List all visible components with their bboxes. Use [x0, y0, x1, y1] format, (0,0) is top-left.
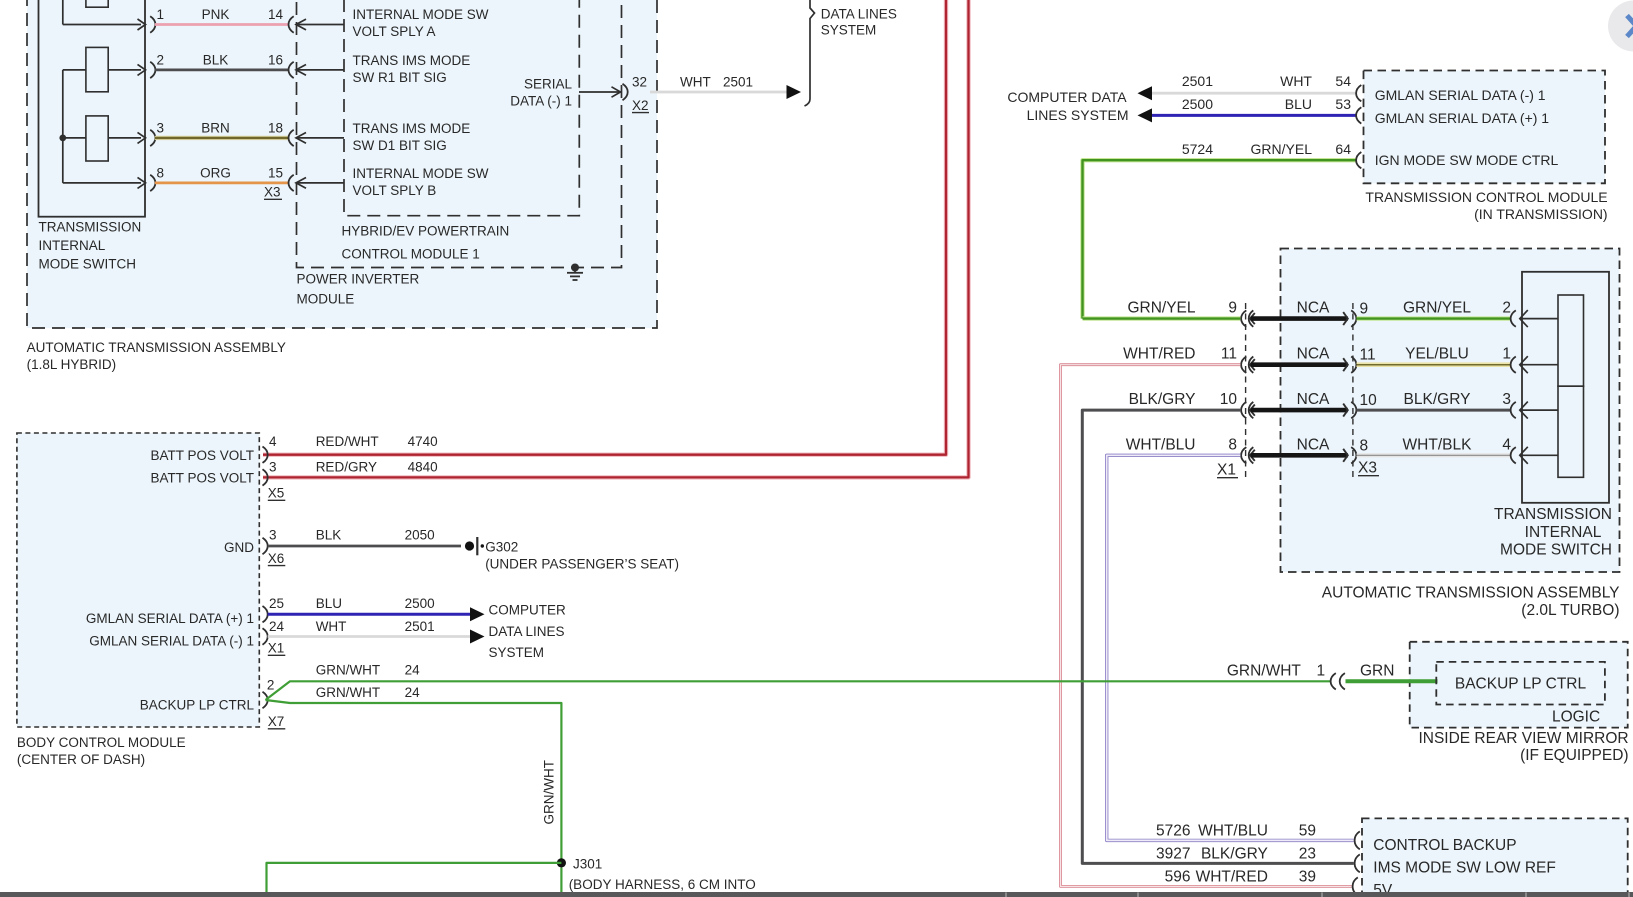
svg-text:X1: X1	[1217, 462, 1236, 479]
svg-text:8: 8	[1228, 436, 1237, 453]
svg-text:J301: J301	[573, 857, 602, 872]
module box: INSIDE REAR VIEW MIRROR (IF EQUIPPED)	[1410, 642, 1628, 728]
module box: AUTOMATIC TRANSMISSION ASSEMBLY (2.0L TURBO)	[1281, 249, 1620, 573]
svg-text:BLU: BLU	[316, 596, 342, 611]
svg-text:15: 15	[268, 165, 283, 180]
module box: BODY CONTROL MODULE (CENTER OF DASH)	[17, 433, 259, 727]
svg-text:3: 3	[269, 460, 277, 475]
svg-text:14: 14	[268, 7, 284, 22]
junction dot inside left mode switch	[59, 135, 66, 142]
svg-text:BODY CONTROL MODULE: BODY CONTROL MODULE	[17, 735, 186, 750]
svg-text:2050: 2050	[405, 528, 435, 543]
svg-text:INTERNAL: INTERNAL	[39, 238, 106, 253]
TCM pin labels	[1375, 87, 1559, 168]
pin label: TRANS IMS MODE SW R1 BIT SIG	[353, 53, 471, 85]
svg-text:WHT/BLU: WHT/BLU	[1126, 436, 1196, 453]
switch connector pin 3	[1511, 402, 1558, 419]
connector pin 16 X3 (module side)	[289, 62, 345, 78]
switch connector pin 1	[1511, 356, 1558, 373]
svg-text:8: 8	[1360, 437, 1369, 454]
rotated wire label GRN/WHT	[542, 760, 557, 825]
svg-text:596: 596	[1165, 868, 1191, 885]
label: AUTOMATIC TRANSMISSION ASSEMBLY (2.0L TURBO)	[1322, 585, 1620, 620]
svg-text:18: 18	[268, 120, 283, 135]
labels 8 ORG 15	[157, 165, 284, 180]
label: HYBRID/EV POWERTRAIN CONTROL MODULE 1	[342, 224, 510, 262]
svg-text:SW R1 BIT SIG: SW R1 BIT SIG	[353, 70, 447, 85]
inline connector pin 1 (mirror)	[1331, 673, 1345, 689]
svg-text:9: 9	[1360, 301, 1369, 318]
svg-text:BLK/GRY: BLK/GRY	[1129, 391, 1196, 408]
svg-text:MODULE: MODULE	[297, 291, 355, 306]
svg-text:X3: X3	[1358, 460, 1377, 477]
svg-text:RED/GRY: RED/GRY	[316, 460, 377, 475]
svg-text:4: 4	[269, 434, 277, 449]
svg-text:DATA LINES: DATA LINES	[821, 6, 897, 21]
svg-text:9: 9	[1228, 300, 1237, 317]
svg-text:TRANS IMS MODE: TRANS IMS MODE	[353, 53, 471, 68]
wire NCA pin 10 to pin 10	[1251, 408, 1348, 413]
module box: TRANSMISSION CONTROL MODULE (IN TRANSMISSION)	[1364, 71, 1606, 184]
svg-text:3: 3	[157, 120, 165, 135]
svg-text:2: 2	[267, 678, 275, 693]
svg-text:BLK/GRY: BLK/GRY	[1404, 391, 1471, 408]
svg-text:3: 3	[269, 528, 277, 543]
svg-text:16: 16	[268, 52, 283, 67]
module box: HYBRID/EV POWERTRAIN CONTROL MODULE 1	[344, 0, 579, 216]
wire GRN/WHT below J301	[560, 868, 562, 893]
svg-text:GMLAN SERIAL DATA (-) 1: GMLAN SERIAL DATA (-) 1	[1375, 87, 1546, 103]
connector pin 15 X3 (module side)	[289, 175, 345, 191]
connector pin 3 (switch side)	[150, 130, 155, 146]
svg-text:BATT POS VOLT: BATT POS VOLT	[150, 448, 254, 463]
svg-text:MODE SWITCH: MODE SWITCH	[39, 257, 137, 272]
svg-text:5724: 5724	[1182, 141, 1213, 157]
svg-text:(2.0L TURBO): (2.0L TURBO)	[1521, 602, 1619, 619]
inline connector X3 pin 8	[1343, 447, 1356, 463]
svg-text:39: 39	[1299, 868, 1316, 885]
wire WHT/RED riser to control backup	[1061, 365, 1352, 887]
svg-text:GMLAN SERIAL DATA (+) 1: GMLAN SERIAL DATA (+) 1	[86, 611, 254, 626]
labels GRN/WHT 1 GRN	[1227, 662, 1395, 679]
svg-text:SW D1 BIT SIG: SW D1 BIT SIG	[353, 138, 447, 153]
svg-text:NCA: NCA	[1297, 300, 1330, 317]
svg-text:INTERNAL MODE SW: INTERNAL MODE SW	[353, 7, 489, 22]
label: COMPUTER DATA LINES SYSTEM (top)	[1007, 89, 1128, 123]
svg-text:ORG: ORG	[200, 165, 231, 180]
label: BODY CONTROL MODULE (CENTER OF DASH)	[17, 735, 186, 767]
svg-text:10: 10	[1220, 391, 1238, 408]
inline connector dashed lines X1 X3	[1246, 303, 1353, 479]
svg-text:INTERNAL MODE SW: INTERNAL MODE SW	[353, 166, 489, 181]
svg-text:54: 54	[1335, 73, 1351, 89]
svg-text:25: 25	[269, 596, 284, 611]
switch contact element R3	[86, 116, 108, 161]
wire NCA pin 9 to pin 9	[1251, 316, 1348, 321]
svg-text:32: 32	[632, 75, 647, 90]
inline connector X1 pin 10	[1241, 402, 1255, 418]
svg-text:BRN: BRN	[201, 120, 230, 135]
wire WHT 2501	[268, 630, 485, 644]
labels 9 NCA 9 GRN/YEL 2	[1127, 300, 1511, 318]
label X1 (inline connector)	[1217, 462, 1238, 479]
svg-text:GRN/YEL: GRN/YEL	[1127, 300, 1195, 317]
svg-text:GND: GND	[224, 540, 254, 555]
wire BLU 2500	[268, 607, 485, 621]
svg-text:2: 2	[1502, 300, 1511, 317]
svg-text:VOLT SPLY B: VOLT SPLY B	[353, 183, 437, 198]
svg-text:PNK: PNK	[202, 7, 230, 22]
svg-text:TRANSMISSION: TRANSMISSION	[1494, 506, 1612, 523]
svg-text:8: 8	[157, 165, 165, 180]
svg-text:WHT/BLU: WHT/BLU	[1198, 822, 1268, 839]
module box: CONTROL BACKUP / IMS MODE SW LOW REF / 5V	[1362, 818, 1628, 897]
svg-text:NCA: NCA	[1297, 391, 1330, 408]
BCM pin labels	[86, 448, 255, 713]
svg-text:(CENTER OF DASH): (CENTER OF DASH)	[17, 752, 145, 767]
svg-text:23: 23	[1299, 845, 1316, 862]
label X3 (left connector)	[264, 185, 282, 200]
svg-text:GRN/WHT: GRN/WHT	[542, 760, 557, 825]
svg-text:WHT: WHT	[680, 75, 711, 90]
wire BLK/GRY pin 10 to switch pin 3	[1357, 409, 1512, 412]
pin label: INTERNAL MODE SW VOLT SPLY B	[353, 166, 489, 198]
wire WHT 2501 (serial data)	[650, 75, 787, 93]
wire GRN/YEL pin 9 to switch pin 2	[1357, 316, 1512, 320]
svg-text:GRN/WHT: GRN/WHT	[1227, 662, 1302, 679]
inline connector X1 pin 9	[1241, 310, 1255, 326]
svg-text:24: 24	[405, 685, 421, 700]
wire GRN/YEL into connector	[1083, 316, 1241, 320]
svg-text:SYSTEM: SYSTEM	[489, 645, 545, 660]
svg-text:INSIDE REAR VIEW MIRROR: INSIDE REAR VIEW MIRROR	[1418, 730, 1628, 747]
svg-text:(BODY HARNESS, 6 CM INTO: (BODY HARNESS, 6 CM INTO	[569, 877, 756, 892]
connector pin 8 (switch side)	[150, 175, 155, 191]
label: TRANSMISSION INTERNAL MODE SWITCH (right)	[1494, 506, 1612, 559]
svg-text:GRN: GRN	[1360, 662, 1394, 679]
off-page arrow to DATA LINES SYSTEM	[787, 85, 802, 99]
svg-text:G302: G302	[485, 540, 518, 555]
svg-text:IMS MODE SW LOW REF: IMS MODE SW LOW REF	[1373, 859, 1556, 876]
svg-text:X6: X6	[268, 551, 285, 566]
svg-text:BATT POS VOLT: BATT POS VOLT	[150, 471, 254, 486]
svg-text:COMPUTER: COMPUTER	[489, 603, 567, 618]
svg-text:4: 4	[1502, 436, 1511, 453]
svg-text:24: 24	[269, 619, 285, 634]
svg-text:AUTOMATIC TRANSMISSION ASSEMBL: AUTOMATIC TRANSMISSION ASSEMBLY	[27, 340, 286, 355]
switch contact element (top, cut off)	[86, 0, 108, 7]
svg-text:GRN/YEL: GRN/YEL	[1251, 141, 1313, 157]
svg-text:SYSTEM: SYSTEM	[821, 22, 877, 37]
wire BLU 2500 pin 53	[1138, 108, 1356, 122]
ground splice G302	[465, 537, 679, 571]
labels 1 PNK 14	[157, 7, 284, 22]
svg-text:GRN/WHT: GRN/WHT	[316, 663, 381, 678]
svg-text:4840: 4840	[408, 460, 438, 475]
svg-text:LINES SYSTEM: LINES SYSTEM	[1027, 107, 1129, 123]
svg-text:BACKUP LP CTRL: BACKUP LP CTRL	[1455, 676, 1587, 693]
svg-text:X1: X1	[268, 641, 285, 656]
wire RED/GRY 4840 riser	[263, 0, 969, 477]
label LOGIC	[1552, 708, 1600, 725]
connector pin 1 (switch side)	[150, 16, 155, 32]
svg-text:53: 53	[1335, 96, 1351, 112]
switch contact element R2	[86, 47, 108, 91]
wire WHT/BLU riser to control backup	[1107, 455, 1354, 840]
svg-text:BLU: BLU	[1285, 96, 1312, 112]
label: INSIDE REAR VIEW MIRROR (IF EQUIPPED)	[1418, 730, 1628, 764]
svg-text:COMPUTER DATA: COMPUTER DATA	[1007, 89, 1127, 105]
svg-text:NCA: NCA	[1297, 346, 1330, 363]
off-page bracket: DATA LINES SYSTEM	[805, 0, 815, 106]
connector pin 18 X3 (module side)	[289, 130, 345, 146]
svg-text:LOGIC: LOGIC	[1552, 708, 1600, 725]
label: DATA LINES SYSTEM	[821, 6, 897, 37]
svg-text:DATA LINES: DATA LINES	[489, 624, 565, 639]
labels 3 BRN 18	[157, 120, 284, 135]
wire GRN/YEL 5724 pin 64	[1083, 160, 1356, 318]
BCM connectors X5 X6 X1 X7	[263, 447, 268, 709]
svg-text:WHT: WHT	[1280, 73, 1312, 89]
svg-text:(UNDER PASSENGER’S SEAT): (UNDER PASSENGER’S SEAT)	[485, 556, 679, 571]
svg-text:CONTROL BACKUP: CONTROL BACKUP	[1373, 837, 1516, 854]
switch contact element (right, lower)	[1558, 386, 1584, 477]
svg-text:2500: 2500	[405, 596, 435, 611]
wire PNK pin 1 to pin 14	[155, 23, 289, 26]
svg-text:GMLAN SERIAL DATA (-) 1: GMLAN SERIAL DATA (-) 1	[89, 633, 254, 648]
switch connector pin 2	[1511, 310, 1558, 327]
svg-text:YEL/BLU: YEL/BLU	[1405, 346, 1469, 363]
svg-text:2501: 2501	[723, 75, 753, 90]
label: TRANSMISSION INTERNAL MODE SWITCH (left)	[39, 220, 142, 272]
svg-text:TRANSMISSION: TRANSMISSION	[39, 220, 142, 235]
bottom table header bar	[0, 892, 1633, 897]
svg-text:GMLAN SERIAL DATA (+) 1: GMLAN SERIAL DATA (+) 1	[1375, 110, 1550, 126]
wire: serial data to X2 connector	[579, 87, 621, 97]
wire YEL/BLU pin 11 to switch pin 1	[1357, 362, 1512, 367]
svg-text:2500: 2500	[1182, 96, 1213, 112]
svg-text:BLK: BLK	[203, 52, 229, 67]
wire GRN/WHT 24 (upper branch to mirror)	[266, 681, 1331, 700]
control backup box pin labels	[1373, 837, 1556, 897]
ground symbol on POWER INVERTER MODULE	[567, 264, 583, 281]
wire GRN/WHT 24 (lower branch to J301)	[266, 700, 562, 859]
wire GRN into mirror	[1346, 679, 1438, 683]
svg-text:VOLT SPLY A: VOLT SPLY A	[353, 24, 436, 39]
wire BLK 2050 to G302	[268, 545, 461, 548]
switch contact element (right, upper)	[1558, 295, 1584, 386]
svg-text:1: 1	[157, 7, 165, 22]
svg-text:SERIAL: SERIAL	[524, 77, 573, 92]
svg-text:11: 11	[1360, 347, 1376, 364]
svg-text:3927: 3927	[1156, 845, 1190, 862]
svg-text:POWER INVERTER: POWER INVERTER	[297, 272, 420, 287]
svg-text:IGN MODE SW MODE CTRL: IGN MODE SW MODE CTRL	[1375, 152, 1559, 168]
svg-text:WHT/RED: WHT/RED	[1196, 868, 1268, 885]
svg-text:TRANSMISSION CONTROL MODULE: TRANSMISSION CONTROL MODULE	[1365, 189, 1607, 205]
svg-text:CONTROL MODULE 1: CONTROL MODULE 1	[342, 247, 480, 262]
inline connector X1 pin 11	[1241, 357, 1255, 373]
svg-text:BLK/GRY: BLK/GRY	[1201, 845, 1268, 862]
svg-text:NCA: NCA	[1297, 436, 1330, 453]
switch connector pin 4	[1511, 447, 1558, 464]
svg-text:X2: X2	[632, 98, 649, 113]
close button (top right)	[1608, 1, 1633, 52]
connector pin 2 (switch side)	[150, 62, 155, 78]
logic box: BACKUP LP CTRL	[1436, 662, 1605, 705]
svg-text:WHT: WHT	[316, 619, 347, 634]
svg-text:3: 3	[1502, 391, 1511, 408]
svg-text:(IN TRANSMISSION): (IN TRANSMISSION)	[1474, 206, 1608, 222]
connector pin 14 X3 (module side)	[289, 16, 345, 32]
wire BRN pin 3 to pin 18	[155, 136, 289, 140]
svg-text:(IF EQUIPPED): (IF EQUIPPED)	[1520, 747, 1629, 764]
labels 596 WHT/RED 39	[1165, 868, 1316, 885]
BCM connector pin number labels	[267, 434, 438, 729]
svg-text:HYBRID/EV POWERTRAIN: HYBRID/EV POWERTRAIN	[342, 224, 510, 239]
svg-text:2501: 2501	[1182, 73, 1213, 89]
svg-text:2501: 2501	[405, 619, 435, 634]
svg-text:BACKUP LP CTRL: BACKUP LP CTRL	[140, 698, 255, 713]
svg-text:BLK: BLK	[316, 528, 342, 543]
inline connector X3 pin 11	[1343, 357, 1356, 373]
svg-text:GRN/WHT: GRN/WHT	[316, 685, 381, 700]
labels 5724 GRN/YEL 64	[1182, 141, 1351, 157]
label: COMPUTER DATA LINES SYSTEM (bottom)	[489, 603, 567, 660]
labels 5726 WHT/BLU 59	[1156, 822, 1316, 839]
svg-text:RED/WHT: RED/WHT	[316, 434, 379, 449]
pin label: SERIAL DATA (-) 1	[510, 77, 572, 109]
svg-text:5726: 5726	[1156, 822, 1190, 839]
inline connector X1 pin 8	[1241, 447, 1255, 463]
wire WHT/BLK pin 8 to switch pin 4	[1357, 453, 1512, 457]
inline connector X3 pin 10	[1343, 402, 1356, 418]
svg-text:11: 11	[1221, 346, 1237, 363]
svg-text:INTERNAL: INTERNAL	[1525, 524, 1602, 541]
labels 3927 BLK/GRY 23	[1156, 845, 1316, 862]
label: AUTOMATIC TRANSMISSION ASSEMBLY (1.8L HYBRID)	[27, 340, 286, 372]
module box: AUTOMATIC TRANSMISSION ASSEMBLY (1.8L HYBRID)	[27, 0, 657, 328]
labels 11 NCA 11 YEL/BLU 1	[1123, 346, 1511, 364]
wire GRN/WHT left branch from J301	[267, 863, 562, 893]
svg-text:TRANS IMS MODE: TRANS IMS MODE	[353, 121, 471, 136]
svg-text:59: 59	[1299, 822, 1316, 839]
module box: POWER INVERTER MODULE	[297, 0, 622, 268]
pin label: INTERNAL MODE SW VOLT SPLY A	[353, 7, 489, 39]
svg-text:1: 1	[1316, 662, 1325, 679]
switch: TRANSMISSION INTERNAL MODE SWITCH (right)	[1522, 272, 1609, 503]
inline connector X3 pin 9	[1343, 310, 1356, 326]
wire BLK/GRY riser to control backup	[1082, 410, 1354, 863]
label: TRANSMISSION CONTROL MODULE (IN TRANSMISSION)	[1365, 189, 1607, 222]
svg-text:DATA (-) 1: DATA (-) 1	[510, 94, 572, 109]
TCM connectors	[1356, 85, 1361, 168]
svg-text:WHT/RED: WHT/RED	[1123, 346, 1195, 363]
wire RED/WHT 4740 riser	[263, 0, 946, 455]
connector X2 pin 32	[623, 75, 650, 113]
svg-text:1: 1	[1502, 346, 1511, 363]
wire BLK pin 2 to pin 16	[155, 69, 289, 72]
svg-text:X7: X7	[268, 714, 285, 729]
label: POWER INVERTER MODULE	[297, 272, 420, 307]
splice J301	[557, 857, 756, 893]
svg-text:4740: 4740	[408, 434, 438, 449]
labels 2501 WHT 54 / 2500 BLU 53	[1182, 73, 1351, 112]
svg-text:MODE SWITCH: MODE SWITCH	[1500, 542, 1612, 559]
svg-text:AUTOMATIC TRANSMISSION ASSEMBL: AUTOMATIC TRANSMISSION ASSEMBLY	[1322, 585, 1620, 602]
wire WHT 2501 pin 54	[1138, 86, 1356, 100]
labels 10 NCA 10 BLK/GRY 3	[1129, 391, 1511, 409]
wire ORG pin 8 to pin 15	[155, 181, 289, 184]
label X3 (inline connector)	[1358, 460, 1379, 477]
switch: TRANSMISSION INTERNAL MODE SWITCH (left)	[39, 0, 146, 217]
svg-text:24: 24	[405, 663, 421, 678]
svg-text:10: 10	[1360, 392, 1378, 409]
svg-text:2: 2	[157, 52, 165, 67]
svg-text:64: 64	[1335, 141, 1351, 157]
svg-text:WHT/BLK: WHT/BLK	[1403, 436, 1473, 453]
svg-text:GRN/YEL: GRN/YEL	[1403, 300, 1471, 317]
internal switch wiring	[63, 0, 146, 188]
control backup connectors	[1353, 831, 1360, 895]
labels 8 NCA 8 WHT/BLK 4	[1126, 436, 1512, 454]
svg-text:X3: X3	[264, 185, 281, 200]
wire NCA pin 8 to pin 8	[1251, 453, 1348, 458]
pin label: TRANS IMS MODE SW D1 BIT SIG	[353, 121, 471, 153]
svg-text:X5: X5	[268, 486, 285, 501]
svg-text:(1.8L HYBRID): (1.8L HYBRID)	[27, 357, 117, 372]
labels 2 BLK 16	[157, 52, 284, 67]
wire NCA pin 11 to pin 11	[1251, 362, 1348, 367]
